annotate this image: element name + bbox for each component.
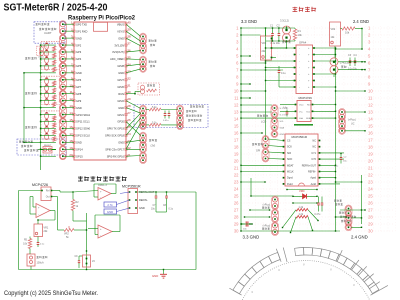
Pico USB connector tab: [94, 22, 108, 31]
svg-text:SPI0 TX GP19: SPI0 TX GP19: [107, 127, 125, 131]
svg-text:3.3 GND: 3.3 GND: [241, 19, 257, 24]
wire VR2 bottom to connector: [335, 29, 362, 58]
bridge resistor Rb 1.2k: [296, 213, 308, 218]
svg-text:29: 29: [127, 97, 131, 101]
svg-text:MCP4726: MCP4726: [32, 183, 48, 187]
svg-text:19: 19: [234, 152, 239, 157]
CN10 label line2: [335, 203, 337, 205]
svg-text:Agnd: Agnd: [310, 177, 316, 180]
CN10 label line3: [339, 212, 341, 214]
CN7 label serial SPI: [252, 143, 254, 145]
left bus: [240, 28, 242, 231]
svg-text:ADC_VREF: ADC_VREF: [110, 57, 124, 61]
svg-text:28: 28: [127, 104, 131, 108]
bottom rail: [19, 269, 197, 270]
svg-text:11: 11: [234, 96, 239, 101]
Pico pin 14 GP10 SDA1: [69, 111, 90, 117]
svg-text:15: 15: [234, 124, 239, 129]
svg-text:GND: GND: [152, 274, 158, 278]
svg-text:22: 22: [368, 173, 373, 178]
S-case group 3 label: [25, 126, 27, 128]
Pico pin 39 VSYS: [117, 28, 131, 34]
caps 0.47u: [315, 197, 324, 217]
svg-text:GP22: GP22: [117, 99, 124, 103]
svg-text:12: 12: [368, 103, 373, 108]
svg-text:0.1u: 0.1u: [169, 209, 174, 211]
svg-text:28: 28: [234, 215, 239, 220]
svg-text:SGT-Meter6R / 2025-4-20: SGT-Meter6R / 2025-4-20: [4, 2, 108, 13]
encoder connector CN4 left: [140, 105, 147, 130]
svg-text:11: 11: [368, 96, 373, 101]
svg-text:RESET: RESET: [44, 145, 52, 147]
svg-text:31: 31: [127, 83, 131, 87]
Pico pin 3 GND: [71, 35, 82, 41]
svg-text:VRD: VRD: [299, 189, 305, 193]
svg-text:13: 13: [234, 110, 239, 115]
Pico pin 38 GND: [118, 35, 131, 41]
Pico pin 26 GP20: [117, 118, 131, 124]
svg-text:GP28: GP28: [117, 64, 124, 68]
S-case group 1 label: [25, 57, 27, 59]
Pico pin 11 GP8: [70, 90, 82, 96]
svg-text:RUN: RUN: [118, 92, 124, 96]
CN9 label line4: [262, 228, 264, 230]
svg-text:GP3: GP3: [76, 50, 82, 54]
Pico pin 8 GND: [71, 69, 82, 75]
svg-text:VBUS: VBUS: [117, 22, 124, 26]
op-amp IC U2: [294, 41, 315, 94]
option box UART label: [36, 23, 38, 25]
GND symbol: [152, 270, 167, 279]
Pico pin 13 GND: [69, 104, 82, 110]
encoder resistor R up: [149, 108, 161, 111]
svg-text:3.3 GND: 3.3 GND: [243, 235, 260, 240]
Pico pin 19 GP14: [69, 146, 83, 152]
svg-text:GND: GND: [118, 106, 124, 110]
svg-text:OPA4: OPA4: [299, 41, 307, 45]
Pico pin 6 GP4: [71, 55, 82, 61]
Pico pin 1 GP0 TXD: [71, 21, 87, 27]
svg-text:R1: R1: [298, 29, 302, 33]
svg-text:SDO: SDO: [287, 158, 292, 161]
svg-text:26: 26: [368, 201, 373, 206]
misc row stubs: [240, 55, 346, 231]
svg-text:3V3(OUT): 3V3(OUT): [112, 50, 124, 54]
svg-text:32: 32: [127, 76, 131, 80]
svg-text:1.2k: 1.2k: [299, 213, 304, 216]
top-left wires: [241, 26, 295, 58]
Pico pin 16 GP12 SDA0: [69, 125, 90, 131]
svg-text:GP14: GP14: [76, 148, 83, 152]
wires DAC left loop: [19, 191, 56, 270]
svg-text:30: 30: [234, 229, 239, 234]
svg-text:(12a): (12a): [39, 57, 44, 59]
svg-text:GP9: GP9: [76, 99, 82, 103]
wire row7 left: [240, 69, 283, 70]
CN10 label line5: [341, 220, 343, 222]
CN5 label line1: [149, 139, 151, 141]
Pico pin 10 GP7: [69, 83, 81, 89]
svg-text:40: 40: [127, 21, 131, 25]
power connector P1 figure-8: [280, 19, 291, 43]
Pico pin 27 GP21: [117, 111, 131, 117]
CN8 wires: [345, 111, 366, 131]
inner right bus: [335, 49, 337, 231]
CN9 label line2: [262, 207, 264, 209]
CN6 pin labels: [280, 108, 289, 136]
resistor R1: [293, 29, 302, 40]
CN2 label line2: [150, 44, 152, 46]
VR2 box: [330, 22, 341, 46]
svg-text:REFIN-: REFIN-: [308, 171, 316, 174]
Pico pin 15 GP11 SCL1: [69, 118, 90, 124]
svg-text:Ref: Ref: [307, 105, 311, 107]
op-amp A1: [36, 204, 50, 218]
svg-text:NC: NC: [313, 140, 317, 143]
U3 ground bar: [294, 124, 313, 126]
svg-text:28: 28: [368, 215, 373, 220]
reset switch SW1: [38, 145, 56, 153]
meter scale ticks: [229, 248, 388, 296]
remote reset text line3: [24, 149, 26, 151]
svg-text:0.47u: 0.47u: [315, 214, 321, 216]
svg-text:37: 37: [127, 42, 131, 46]
VR4 horizontal: [62, 226, 87, 239]
S-case pad group 3 (rows 14-17): [41, 111, 62, 141]
svg-text:27: 27: [368, 208, 373, 213]
svg-text:19: 19: [368, 152, 373, 157]
ref power connector CN2: [140, 33, 147, 54]
op-amp A2: [88, 215, 120, 238]
CN6 label S-case LCD: [257, 115, 259, 117]
svg-text:24: 24: [127, 132, 131, 136]
svg-text:(+Pico): (+Pico): [263, 205, 271, 207]
svg-text:2.4 GND: 2.4 GND: [353, 19, 369, 24]
svg-text:MDAT: MDAT: [287, 164, 294, 167]
svg-text:GP21: GP21: [117, 113, 124, 117]
svg-text:14: 14: [368, 117, 373, 122]
svg-text:MCP3561R: MCP3561R: [122, 185, 141, 189]
power connector P2 figure-8: [330, 58, 349, 74]
svg-text:29: 29: [234, 222, 239, 227]
svg-text:SPI: SPI: [256, 149, 260, 153]
svg-text:NC: NC: [313, 146, 317, 149]
cap near U3: [283, 107, 288, 117]
wire row25: [251, 196, 318, 197]
svg-text:UC: UC: [351, 123, 355, 126]
svg-text:(3V): (3V): [151, 144, 156, 147]
CN9 wires: [244, 209, 270, 217]
cap row29 left: [241, 221, 253, 230]
svg-text:GND: GND: [107, 210, 113, 214]
svg-text:1.2k: 1.2k: [299, 206, 304, 209]
svg-text:SDI: SDI: [287, 152, 291, 155]
svg-text:GND: GND: [76, 36, 82, 40]
VR1 box: [261, 36, 273, 60]
CN2 label line1: [149, 40, 151, 42]
U4 notch: [299, 183, 305, 186]
resistor R6 mid: [71, 191, 79, 215]
svg-text:10: 10: [234, 89, 239, 94]
svg-text:GND: GND: [139, 206, 145, 210]
left ground bus and stubs: [40, 44, 56, 157]
meter scale segment boxes: [233, 247, 379, 293]
resistor R5: [23, 239, 32, 249]
svg-text:14: 14: [234, 117, 239, 122]
svg-text:2.4 GND: 2.4 GND: [351, 235, 368, 240]
svg-text:27: 27: [234, 208, 239, 213]
wires Pico SPI pins to encoder: [126, 101, 141, 150]
power 3V connector CN5: [140, 132, 147, 153]
diode VRD: [299, 189, 307, 199]
svg-text:26: 26: [234, 201, 239, 206]
cap C5 right of U4: [334, 153, 347, 168]
svg-text:MCP3561R: MCP3561R: [292, 135, 308, 139]
voltmeter connector CN3: [140, 56, 147, 72]
svg-text:GP1 RXD: GP1 RXD: [76, 29, 88, 33]
svg-text:MCP4726: MCP4726: [299, 96, 313, 100]
svg-text:0.1u 10u: 0.1u 10u: [271, 42, 281, 45]
op-amp A3: [73, 184, 116, 200]
svg-text:SCK: SCK: [287, 146, 292, 149]
DAC MCP4726 U3: [295, 96, 314, 122]
svg-text:CS: CS: [287, 140, 291, 143]
Pico pin 5 GP3: [71, 49, 82, 55]
outer ground bus: [23, 72, 40, 143]
LCD connector CN6: [271, 105, 278, 138]
svg-text:10k: 10k: [345, 31, 350, 35]
remote reset option box dashed: [17, 139, 66, 155]
wire Pico GP14 down: [40, 156, 42, 170]
svg-text:GP12 SDA0: GP12 SDA0: [76, 127, 91, 131]
encoder text block: [186, 110, 188, 112]
svg-text:21: 21: [234, 166, 239, 171]
Pico pin 20 GP15: [69, 153, 83, 159]
svg-text:CY1: CY1: [311, 152, 316, 155]
U3 wires: [240, 104, 336, 119]
svg-text:25: 25: [234, 194, 239, 199]
svg-text:GP10 SDA1: GP10 SDA1: [76, 113, 91, 117]
svg-text:24: 24: [234, 187, 239, 192]
VR3 box: [34, 224, 49, 237]
U4 wires: [240, 139, 362, 184]
svg-text:10: 10: [368, 89, 373, 94]
svg-text:GND: GND: [118, 71, 124, 75]
Pico pin 31 GP26: [117, 83, 131, 89]
basic circuit title (kanji): [78, 176, 83, 181]
Pico pin 37 3V3_EN: [114, 42, 131, 48]
Pico link connector CN8: [339, 109, 346, 135]
rotary encoder option box dashed: [134, 105, 208, 128]
svg-text:Vout: Vout: [299, 104, 304, 107]
svg-text:SDA: SDA: [306, 117, 311, 120]
control board dotted grid: [241, 26, 395, 233]
Pico pin 35 ADC_VREF: [110, 55, 131, 61]
svg-text:Dvdd: Dvdd: [287, 183, 293, 186]
svg-text:GND: GND: [76, 141, 82, 145]
Pico pin 33 GND: [118, 69, 131, 75]
svg-text:REFIN-: REFIN-: [139, 198, 148, 202]
svg-text:30: 30: [368, 229, 373, 234]
Pico pin 29 GP22: [117, 97, 131, 103]
right bus: [361, 175, 363, 224]
wire mid vertical: [73, 213, 87, 270]
capacitor C2: [271, 25, 281, 46]
S-case run box dashed: [138, 83, 160, 95]
svg-text:VSYS: VSYS: [117, 29, 124, 33]
cap C7: [151, 192, 157, 211]
wires Pico bottom-right to CN5: [126, 122, 141, 157]
S-case group 2 label: [25, 92, 27, 94]
wire row26: [292, 202, 317, 203]
top-right wires: [334, 48, 366, 91]
svg-text:GP26: GP26: [117, 85, 124, 89]
svg-text:26: 26: [127, 118, 131, 122]
encoder connector CN4 right: [177, 105, 184, 130]
svg-text:13: 13: [368, 110, 373, 115]
svg-text:17: 17: [368, 138, 373, 143]
current meter connector CN9: [272, 196, 279, 236]
svg-text:S.1 GND: S.1 GND: [280, 108, 289, 110]
bridge diagonal wires: [282, 210, 319, 233]
wire row24: [286, 189, 317, 190]
U6 blue wires: [117, 192, 130, 212]
svg-text:GP8: GP8: [76, 92, 82, 96]
meter scale tiny marks: [251, 263, 355, 293]
wires Pico top-right to CN2/CN3: [126, 24, 141, 73]
Pico pin 40 VBUS: [117, 21, 131, 27]
svg-text:-: -: [38, 213, 39, 216]
svg-text:Out: Out: [46, 196, 50, 199]
aux connector CN5b: [140, 152, 147, 164]
svg-text:Ref: Ref: [46, 191, 50, 193]
svg-text:0.1u: 0.1u: [281, 72, 286, 75]
U6 wires right: [138, 191, 197, 269]
option box UART text line2: [39, 28, 41, 30]
CN3 label line1: [149, 61, 151, 63]
svg-text:20: 20: [234, 159, 239, 164]
Pico pin 9 GP6: [71, 76, 82, 82]
Pico pin 12 GP9: [69, 97, 81, 103]
CN10 wires: [340, 209, 366, 228]
svg-text:Raspberry Pi Pico/Pico2: Raspberry Pi Pico/Pico2: [68, 14, 136, 21]
resistor R2 horizontal: [341, 27, 363, 35]
CN3 label line2: [150, 65, 152, 67]
uart option pad: [37, 46, 48, 58]
wires J1 to Pico left pins: [63, 24, 74, 156]
svg-text:38: 38: [127, 35, 131, 39]
svg-text:20: 20: [368, 159, 373, 164]
svg-text:VR1: VR1: [262, 42, 267, 45]
capacitor C4: [348, 54, 358, 71]
svg-text:0.01u: 0.01u: [163, 120, 169, 122]
capacitor C3: [348, 54, 352, 66]
Pico pin 23 GND: [118, 139, 131, 145]
svg-text:21: 21: [368, 166, 373, 171]
DAC U5 MCP4726 box: [41, 187, 52, 201]
svg-text:GP7: GP7: [76, 85, 82, 89]
svg-text:REFIN+/OUT: REFIN+/OUT: [302, 164, 317, 167]
svg-text:Dgnd: Dgnd: [287, 177, 293, 180]
wire RUN pin to pad: [126, 91, 141, 94]
Pico pin 18 GND: [69, 139, 82, 145]
encoder link connector CN10: [345, 205, 352, 231]
svg-text:17: 17: [234, 138, 239, 143]
Pico pin 2 GP1 RXD: [71, 28, 88, 34]
svg-text:SPI0 RX GP16: SPI0 RX GP16: [107, 154, 125, 158]
svg-text:GND: GND: [280, 134, 285, 136]
Pico pin 21 SPI0 RX GP16: [107, 153, 131, 159]
svg-text:2.4(1,2): 2.4(1,2): [340, 61, 349, 65]
svg-text:SPI0 CSn GP17: SPI0 CSn GP17: [105, 148, 124, 152]
Pico pin 24 SPI0 SCK GP18: [105, 132, 131, 138]
control board title (kanji): [293, 7, 298, 12]
svg-text:100uA: 100uA: [37, 262, 45, 265]
svg-text:18: 18: [234, 145, 239, 150]
svg-text:-: -: [100, 235, 101, 238]
svg-text:12: 12: [234, 103, 239, 108]
run pad: [141, 85, 145, 94]
header J1 (pads left of Pico): [59, 21, 66, 160]
svg-text:5.1k: 5.1k: [152, 106, 157, 109]
wires encoder rows: [146, 110, 178, 125]
Pico pin 30 RUN: [118, 90, 131, 96]
capacitor C1: [270, 25, 274, 42]
svg-text:UART: UART: [44, 31, 52, 35]
remote reset text line2: [21, 145, 23, 147]
svg-text:GND: GND: [76, 71, 82, 75]
row numbers 1-30 both sides: [234, 26, 374, 234]
svg-text:CY0: CY0: [311, 158, 316, 161]
svg-text:GP15: GP15: [76, 154, 83, 158]
svg-text:GP11 SCL1: GP11 SCL1: [76, 120, 90, 124]
svg-text:5.1k: 5.1k: [152, 121, 157, 124]
svg-text:(+Pico): (+Pico): [263, 226, 271, 228]
meter dotted arc: [241, 260, 369, 300]
svg-text:GP20: GP20: [117, 120, 124, 124]
Pico pin 32 GP27: [117, 76, 131, 82]
svg-text:GP6: GP6: [76, 78, 82, 82]
wire R6 top to DAC: [52, 191, 74, 193]
U2 wires: [265, 47, 336, 87]
svg-text:-: -: [100, 197, 101, 200]
svg-text:23: 23: [368, 180, 373, 185]
ADC U6 MCP3561R box: [128, 189, 138, 214]
cap C8: [163, 192, 174, 211]
Pico pin 17 GP13 SCL0: [69, 132, 90, 138]
cap 0.1u row8: [278, 66, 287, 79]
svg-text:3V3_EN: 3V3_EN: [114, 43, 124, 47]
CN10 label line1: [334, 200, 336, 202]
svg-text:GP5: GP5: [76, 64, 82, 68]
svg-text:(+Pico): (+Pico): [348, 119, 356, 122]
caps to ground wires: [156, 202, 167, 212]
SPI connector CN7: [262, 136, 269, 163]
encoder resistor R down: [149, 124, 161, 127]
svg-text:GP4: GP4: [76, 57, 82, 61]
Pico pin 25 SPI0 TX GP19: [107, 125, 131, 131]
svg-text:22: 22: [234, 173, 239, 178]
rotary encoder option label: [190, 105, 192, 107]
svg-text:GP0 TXD: GP0 TXD: [76, 22, 87, 26]
bridge resistor Ra 1.2k: [296, 206, 308, 211]
wire DAC out: [52, 196, 63, 230]
blue box GND: [104, 209, 117, 214]
option box (UART) dashed: [34, 22, 65, 43]
svg-text:VR2: VR2: [331, 28, 336, 31]
svg-text:16: 16: [368, 131, 373, 136]
Pico pin 7 GP5: [71, 62, 82, 68]
